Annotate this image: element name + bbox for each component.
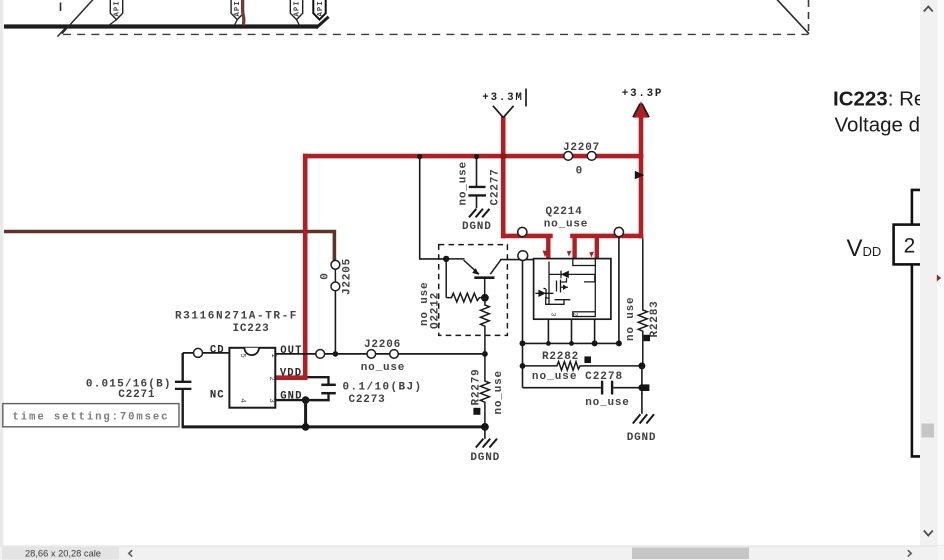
node AP flag 3 [290, 0, 302, 25]
svg-text:R2282: R2282 [542, 351, 579, 363]
pin circle on red lower bus (right) [614, 227, 623, 236]
svg-text:C2273: C2273 [348, 394, 385, 406]
junction R2279 top / OUT net [482, 351, 488, 357]
svg-text:OUT: OUT [280, 345, 302, 357]
svg-text:0.1/10(BJ): 0.1/10(BJ) [342, 381, 422, 393]
svg-text:2: 2 [904, 235, 916, 258]
junction bottom rail [302, 423, 310, 431]
svg-text:C2277: C2277 [490, 168, 502, 205]
svg-text:no_use: no_use [585, 397, 629, 409]
status size chip [2, 547, 119, 560]
svg-text:IC223: IC223 [232, 323, 269, 335]
marker square R2279 [473, 408, 480, 415]
junction Q2212 input [443, 256, 449, 262]
svg-text:3: 3 [267, 398, 275, 403]
svg-text:28,66 x 20,28 cale: 28,66 x 20,28 cale [25, 549, 101, 559]
scrollbar corner [938, 546, 944, 560]
svg-text:0: 0 [320, 273, 332, 280]
capacitor C2278 wire and plates [523, 381, 642, 395]
svg-text:NC: NC [210, 390, 225, 402]
wire: bottom rail [182, 425, 485, 428]
pin arrow: red tick at stub left [543, 251, 549, 258]
wire: solid diagonal (top right corner) [777, 0, 810, 34]
bottom status bar [0, 546, 944, 560]
wire: small dashed tick top-left [60, 3, 62, 12]
scrollbar left arrow [129, 550, 132, 556]
vertical scrollbar track [920, 0, 938, 546]
ground DGND (R2279) [470, 427, 500, 464]
capacitor C2277 top lead [476, 157, 478, 186]
scrollbar down arrow [924, 531, 933, 536]
wire: red stub to Q2214 pin (left) [546, 236, 550, 259]
wire: diagonal leader top-left [62, 0, 94, 34]
op-amp U IC223 body [229, 348, 275, 408]
resistor R2283 body (vertical) [638, 238, 647, 366]
power +3.3P arrow outline strokes [633, 104, 649, 118]
wire: dark red drop at flag 2 [243, 0, 244, 26]
jumper J2206 circles [367, 350, 398, 359]
svg-text:no use: no use [625, 297, 637, 341]
wire: Q2212 collector to node [500, 259, 534, 261]
junction on red net crossing [500, 153, 506, 159]
pin circle OUT [316, 350, 325, 359]
svg-text:C2271: C2271 [118, 389, 155, 401]
svg-text:2: 2 [572, 313, 579, 317]
svg-text:+3.3P: +3.3P [622, 88, 663, 100]
wire: right sheet top edge [912, 190, 921, 225]
wire: black drop from bus to Q2212 [420, 157, 447, 259]
svg-text:3: 3 [550, 313, 557, 317]
node AP flag 4 [313, 0, 325, 20]
wire: left tap vertical (circle to R2282/C2278) [522, 260, 524, 387]
svg-text:no_use: no_use [544, 219, 588, 231]
wire: red lower bus (left segment) [501, 234, 553, 239]
svg-text:time setting:70msec: time setting:70msec [13, 412, 170, 424]
svg-text:no_use C2278: no_use C2278 [532, 371, 623, 383]
svg-text:API: API [317, 0, 325, 16]
svg-text:no_use: no_use [458, 161, 470, 205]
svg-text:2: 2 [267, 376, 275, 381]
capacitor C2277 bottom lead [476, 195, 478, 208]
resistor R2282 body (horizontal) [523, 362, 642, 371]
marker square (C2278 right) [643, 384, 649, 391]
wire: vertical dashed boundary (top right) [808, 0, 810, 34]
wire: red stub to Q2214 pin (middle) [572, 236, 576, 258]
wire: right sheet left edge [912, 264, 921, 456]
transistor Q2214 package body [534, 259, 611, 320]
ground DGND (R2283) [627, 393, 657, 444]
junction on red bus (Q2212 tap) [417, 154, 422, 159]
wire: GND pin line [275, 399, 329, 401]
pin circle CD [194, 348, 203, 357]
off-page arrow on +3.3P net [635, 171, 644, 180]
jumper J2205 circles [331, 260, 340, 290]
marker square R2282 [584, 356, 591, 363]
resistor (Q2212 lower) vertical zigzag [481, 298, 490, 354]
svg-text:DGND: DGND [462, 221, 492, 233]
wire: red horizontal into VDD pin [275, 375, 307, 380]
svg-text:CD: CD [210, 345, 225, 357]
svg-text:Q2212: Q2212 [430, 292, 442, 329]
text caret after +3.3M [525, 89, 527, 107]
junction R2279 bottom [481, 423, 489, 431]
wire: right tap vertical from bus circle [618, 236, 620, 343]
wire: bus end diagonal (top right of bus) [316, 17, 329, 28]
wire: thick black bus (top) [4, 24, 318, 28]
svg-text:R2283: R2283 [649, 300, 661, 337]
svg-text:VDD: VDD [280, 368, 302, 380]
transistor Q2212 dashed outline [439, 245, 508, 336]
node AP flag 2 [231, 0, 243, 25]
scrollbar right arrow [908, 550, 911, 556]
junction R2283 bottom / R2282 right [638, 362, 645, 369]
transistor Q2212 symbol [464, 260, 501, 294]
wire: red lower bus (right segment) [570, 234, 643, 239]
svg-text:R3116N271A-TR-F: R3116N271A-TR-F [175, 310, 298, 322]
wire: base resistor drop [445, 259, 447, 298]
wire: right rail to C2278 level [641, 366, 643, 394]
svg-text:J2205: J2205 [342, 258, 354, 295]
transistor Q2214 internals [535, 259, 595, 317]
svg-text:no_use: no_use [361, 362, 405, 374]
resistor R2279 body [480, 354, 489, 427]
status bar top border [0, 545, 944, 547]
svg-text:+3.3M: +3.3M [482, 92, 523, 104]
junction J2205/OUT [333, 351, 339, 357]
wire: red stub to Q2214 pin (right) [595, 236, 599, 258]
vertical scrollbar thumb [922, 424, 935, 438]
wire: dark red net from left edge (to J2205) [4, 232, 334, 262]
wire: to emitter [446, 258, 464, 260]
wire: red +3.3M vertical down to bus [501, 117, 506, 239]
capacitor C2277 plates [468, 187, 486, 196]
wire: left rail vertical (upper) [181, 353, 183, 381]
scrollbar up arrow [924, 7, 933, 12]
svg-text:API: API [293, 0, 301, 16]
wire: J2205 to OUT net [334, 291, 336, 354]
ground DGND (C2277) [462, 209, 492, 233]
svg-text:R2279: R2279 [470, 368, 482, 405]
svg-text:4: 4 [238, 398, 246, 403]
wire: Q2214 bottom horizontal [523, 342, 619, 344]
svg-text:no_use: no_use [493, 370, 505, 414]
pin arrow: red tick at stub right [589, 252, 594, 258]
right edge strip [938, 0, 944, 546]
svg-text:API: API [113, 0, 121, 16]
wire: red upper bus horizontal [303, 154, 643, 159]
node AP flag 1 [108, 0, 123, 26]
junction dots on bottom horizontal [520, 340, 622, 346]
pin box V_DD pin 2 [894, 225, 924, 265]
capacitor C2273 leads and plates [306, 377, 336, 400]
junction on red bus (C2277 tap) [474, 154, 479, 159]
pin circle (Q2212 collector) [518, 251, 528, 261]
junction GND [302, 396, 310, 404]
capacitor C2271 plates [175, 382, 192, 389]
power +3.3M terminal V [493, 106, 514, 118]
junction (R2282 left) [520, 363, 526, 369]
svg-text:DGND: DGND [627, 432, 657, 444]
jumper J2207 pin circles [564, 152, 596, 161]
note box: time setting [3, 404, 179, 427]
wire: GND to bottom rail [304, 400, 307, 427]
wire: OUT net horizontal [325, 353, 485, 355]
wire: slash tick at bus left [58, 27, 67, 37]
svg-text:DGND: DGND [470, 452, 500, 464]
junction Q2212 base/collector node [481, 294, 489, 302]
pin circle on red lower bus (left) [518, 227, 527, 236]
wire: horizontal dashed boundary [63, 33, 809, 35]
svg-text:Q2214: Q2214 [545, 206, 582, 218]
scrollbar marker (red) [937, 275, 941, 282]
heading IC223 description [833, 87, 944, 136]
svg-text:5: 5 [238, 353, 246, 358]
wire: CD pin to left rail [183, 352, 230, 354]
page left margin strip [0, 0, 3, 546]
horizontal scrollbar thumb [632, 548, 749, 560]
resistor (Q2212 base) horizontal zigzag [446, 293, 482, 302]
wire: OUT pin to circle [275, 353, 316, 355]
svg-text:0: 0 [576, 166, 583, 178]
wire: red +3.3P vertical [639, 104, 644, 238]
power +3.3P arrowhead [633, 101, 648, 117]
junction C2278 right [638, 384, 645, 391]
wire: left rail vertical (lower) [181, 390, 183, 427]
marker square R2283 [644, 335, 650, 341]
wire: Q2214 source stubs [548, 319, 594, 343]
wire: red vertical to IC223 VDD [303, 154, 308, 378]
pin arrow: red tick at stub middle [567, 251, 572, 257]
